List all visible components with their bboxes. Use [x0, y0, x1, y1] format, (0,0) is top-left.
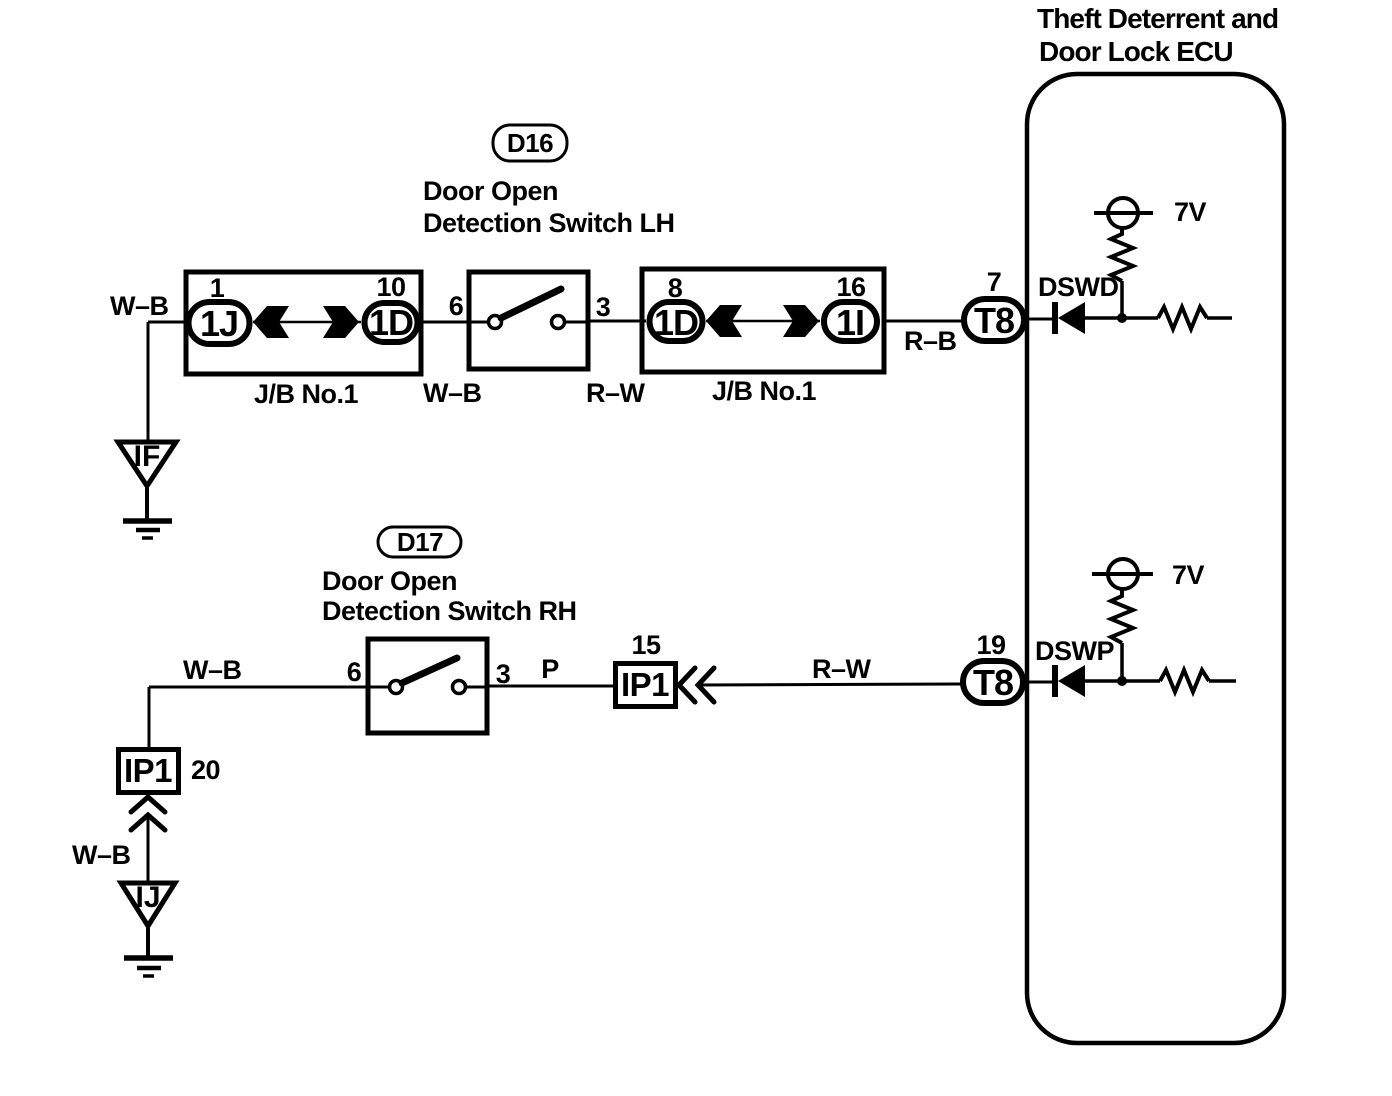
svg-text:R–B: R–B — [904, 326, 957, 356]
connector 1D (pin 10) — [365, 302, 418, 343]
wire resistor to end row2 — [1209, 679, 1236, 683]
svg-text:19: 19 — [976, 630, 1006, 660]
wire row2 left horizontal — [149, 686, 390, 689]
svg-text:J/B No.1: J/B No.1 — [254, 379, 359, 409]
svg-text:1: 1 — [210, 273, 225, 303]
junction node row1 — [1117, 313, 1127, 323]
svg-text:16: 16 — [836, 272, 866, 302]
wire T8 into ECU row2 — [1026, 681, 1053, 684]
wire junction up row1 — [1120, 281, 1124, 318]
pass-through arrow left (J/B2) — [706, 305, 742, 337]
svg-text:7: 7 — [987, 267, 1002, 297]
diode DSWP — [1055, 665, 1085, 697]
svg-text:6: 6 — [347, 657, 362, 687]
connector IP1 (pin 15) — [616, 664, 676, 707]
ground symbol below IF — [123, 488, 172, 538]
connector label D16 — [493, 125, 567, 161]
svg-text:10: 10 — [376, 272, 405, 302]
wire between 1J and 1D — [253, 321, 361, 324]
svg-text:P: P — [541, 654, 559, 684]
svg-text:DSWP: DSWP — [1035, 636, 1114, 666]
connector 1J — [189, 302, 250, 344]
connector 1I (pin 16) — [824, 302, 877, 343]
svg-text:15: 15 — [631, 630, 661, 660]
junction block J/B No.1 (right) box — [642, 269, 884, 372]
svg-text:DSWD: DSWD — [1038, 272, 1119, 302]
connector T8 row1 — [964, 299, 1024, 341]
svg-text:D17: D17 — [397, 527, 443, 557]
switch RH contacts and lever — [368, 658, 487, 694]
svg-text:D16: D16 — [507, 128, 553, 158]
svg-text:T8: T8 — [974, 300, 1014, 341]
wire IP1 to T8 row2 — [699, 684, 962, 685]
connector label D17 — [378, 527, 461, 557]
resistor horizontal row1 — [1158, 307, 1207, 329]
wire diode to junction row2 — [1085, 679, 1122, 683]
svg-text:Door Lock ECU: Door Lock ECU — [1039, 36, 1233, 67]
wire resistor to end row1 — [1207, 316, 1232, 320]
svg-text:IJ: IJ — [135, 881, 160, 914]
wire row1 down to ground IF — [147, 322, 150, 440]
svg-text:1J: 1J — [200, 303, 238, 344]
svg-text:1I: 1I — [836, 302, 864, 343]
wire junction to resistor row1 — [1122, 316, 1158, 320]
wire junction up row2 — [1120, 643, 1124, 681]
svg-text:IF: IF — [134, 440, 161, 473]
resistor vertical row1 — [1111, 228, 1133, 281]
voltage source 7V row1 — [1094, 198, 1153, 228]
svg-text:T8: T8 — [973, 662, 1013, 703]
svg-text:3: 3 — [596, 292, 611, 322]
ground symbol below IJ — [124, 928, 173, 976]
svg-text:J/B No.1: J/B No.1 — [712, 376, 817, 406]
connector T8 row2 — [963, 661, 1023, 703]
male connector arrows under IP1 — [131, 797, 165, 830]
wire 1D to switch LH — [421, 321, 471, 324]
door open detection switch LH box — [469, 272, 588, 369]
svg-text:W–B: W–B — [423, 378, 482, 408]
svg-text:W–B: W–B — [72, 840, 131, 870]
svg-text:6: 6 — [449, 291, 464, 321]
resistor horizontal row2 — [1160, 670, 1209, 692]
ECU U1 Theft Deterrent and Door Lock ECU box — [1027, 74, 1284, 1043]
wire IP1 down to IJ — [147, 817, 150, 881]
voltage source 7V row2 — [1092, 559, 1153, 589]
ground triangle IJ — [121, 881, 175, 926]
wire row2 down to IP1 — [148, 687, 151, 748]
svg-text:1D: 1D — [369, 302, 413, 343]
svg-text:Detection Switch RH: Detection Switch RH — [322, 596, 577, 626]
svg-text:Theft Deterrent and: Theft Deterrent and — [1037, 3, 1278, 34]
wire row1 left horizontal — [148, 321, 187, 324]
resistor vertical row2 — [1111, 589, 1133, 643]
junction node row2 — [1117, 676, 1127, 686]
svg-text:IP1: IP1 — [621, 666, 669, 703]
wire between 1D and 1I — [706, 320, 820, 323]
svg-text:W–B: W–B — [183, 655, 242, 685]
svg-text:1D: 1D — [654, 302, 698, 343]
diode DSWD — [1055, 302, 1085, 334]
label Theft Deterrent and Door Lock ECU — [1037, 3, 1278, 67]
svg-text:R–W: R–W — [812, 654, 872, 684]
connector IP1 (pin 20) — [119, 750, 179, 793]
junction block J/B No.1 (left) box — [186, 272, 421, 374]
wire T8 into ECU row1 — [1027, 318, 1053, 321]
wire switch LH to J/B2 — [588, 320, 646, 323]
door open detection switch RH box — [368, 639, 487, 733]
svg-text:7V: 7V — [1174, 197, 1207, 227]
ground triangle IF — [118, 440, 176, 486]
svg-text:IP1: IP1 — [124, 752, 172, 789]
wire diode to junction row1 — [1085, 316, 1122, 320]
svg-text:R–W: R–W — [586, 378, 646, 408]
svg-text:Door Open: Door Open — [423, 176, 558, 206]
svg-text:8: 8 — [668, 273, 683, 303]
pass-through arrow left (J/B1) — [253, 306, 289, 338]
svg-text:Door Open: Door Open — [322, 566, 457, 596]
svg-text:7V: 7V — [1172, 560, 1205, 590]
svg-text:W–B: W–B — [110, 291, 169, 321]
wire switch RH to IP1 — [487, 685, 613, 688]
switch LH contacts and lever — [469, 289, 588, 329]
connector 1D (pin 8) — [650, 302, 703, 343]
male connector arrows at IP1 row2 — [679, 668, 714, 702]
svg-text:Detection Switch LH: Detection Switch LH — [423, 208, 675, 238]
label Door Open Detection Switch RH — [322, 566, 577, 626]
pass-through arrow right (J/B1) — [323, 306, 359, 338]
pass-through arrow right (J/B2) — [783, 305, 819, 337]
svg-text:20: 20 — [191, 755, 220, 785]
wire J/B2 to T8 row1 — [884, 320, 963, 323]
wire junction to resistor row2 — [1122, 679, 1160, 683]
label Door Open Detection Switch LH — [423, 176, 675, 238]
